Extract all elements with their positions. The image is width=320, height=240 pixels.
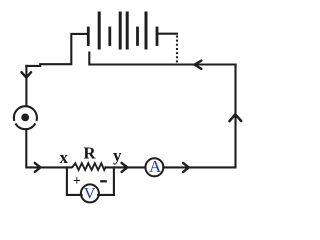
plug key K circle top arc: [14, 106, 37, 120]
wire left vertical upper (corner to key): [25, 66, 27, 106]
ammeter A1 circle: [145, 158, 163, 176]
battery B1 short plate 4: [156, 28, 159, 45]
battery B1 short plate 3: [136, 28, 139, 45]
battery B1 tall plate 3: [126, 13, 129, 48]
svg-text:x: x: [59, 148, 68, 167]
arrow current right after ammeter: [183, 163, 189, 172]
wire ammeter to bottom-right corner: [163, 65, 235, 168]
battery B1 tall plate 1: [98, 13, 101, 48]
battery B1 short plate 1: [87, 28, 90, 45]
arrow current left on top wire: [195, 61, 202, 69]
svg-text:R: R: [83, 143, 96, 162]
node y junction / voltmeter right branch: [98, 167, 114, 195]
wire dotted drop from battery right lead to top wire: [176, 36, 178, 64]
voltmeter V1 circle: [81, 184, 99, 202]
wire top main (right corner to stub under battery): [89, 53, 235, 65]
svg-text:V: V: [84, 185, 96, 202]
arrow current right on bottom-left wire: [35, 163, 41, 172]
svg-text:+: +: [73, 173, 81, 188]
wire key bottom to bottom-left corner: [26, 129, 71, 167]
arrow current down on left wire: [22, 72, 32, 77]
node x junction / voltmeter left branch: [67, 167, 82, 195]
battery B1 short plate 2: [108, 28, 111, 45]
battery B1 tall plate 4: [145, 13, 148, 48]
label - polarity: [100, 180, 107, 182]
resistor R zigzag: [71, 163, 106, 170]
svg-text:y: y: [113, 146, 122, 165]
plug key K dot: [21, 114, 29, 122]
svg-text:A: A: [149, 157, 162, 176]
battery B1 tall plate 2: [119, 13, 122, 48]
plug key K circle bottom arc: [16, 124, 35, 129]
wire battery left lead to top-left corner: [26, 34, 88, 66]
wire resistor to ammeter: [106, 166, 146, 168]
arrow current right before ammeter: [122, 163, 128, 172]
arrow current up on right wire: [229, 114, 241, 121]
wire battery right lead: [157, 33, 177, 35]
